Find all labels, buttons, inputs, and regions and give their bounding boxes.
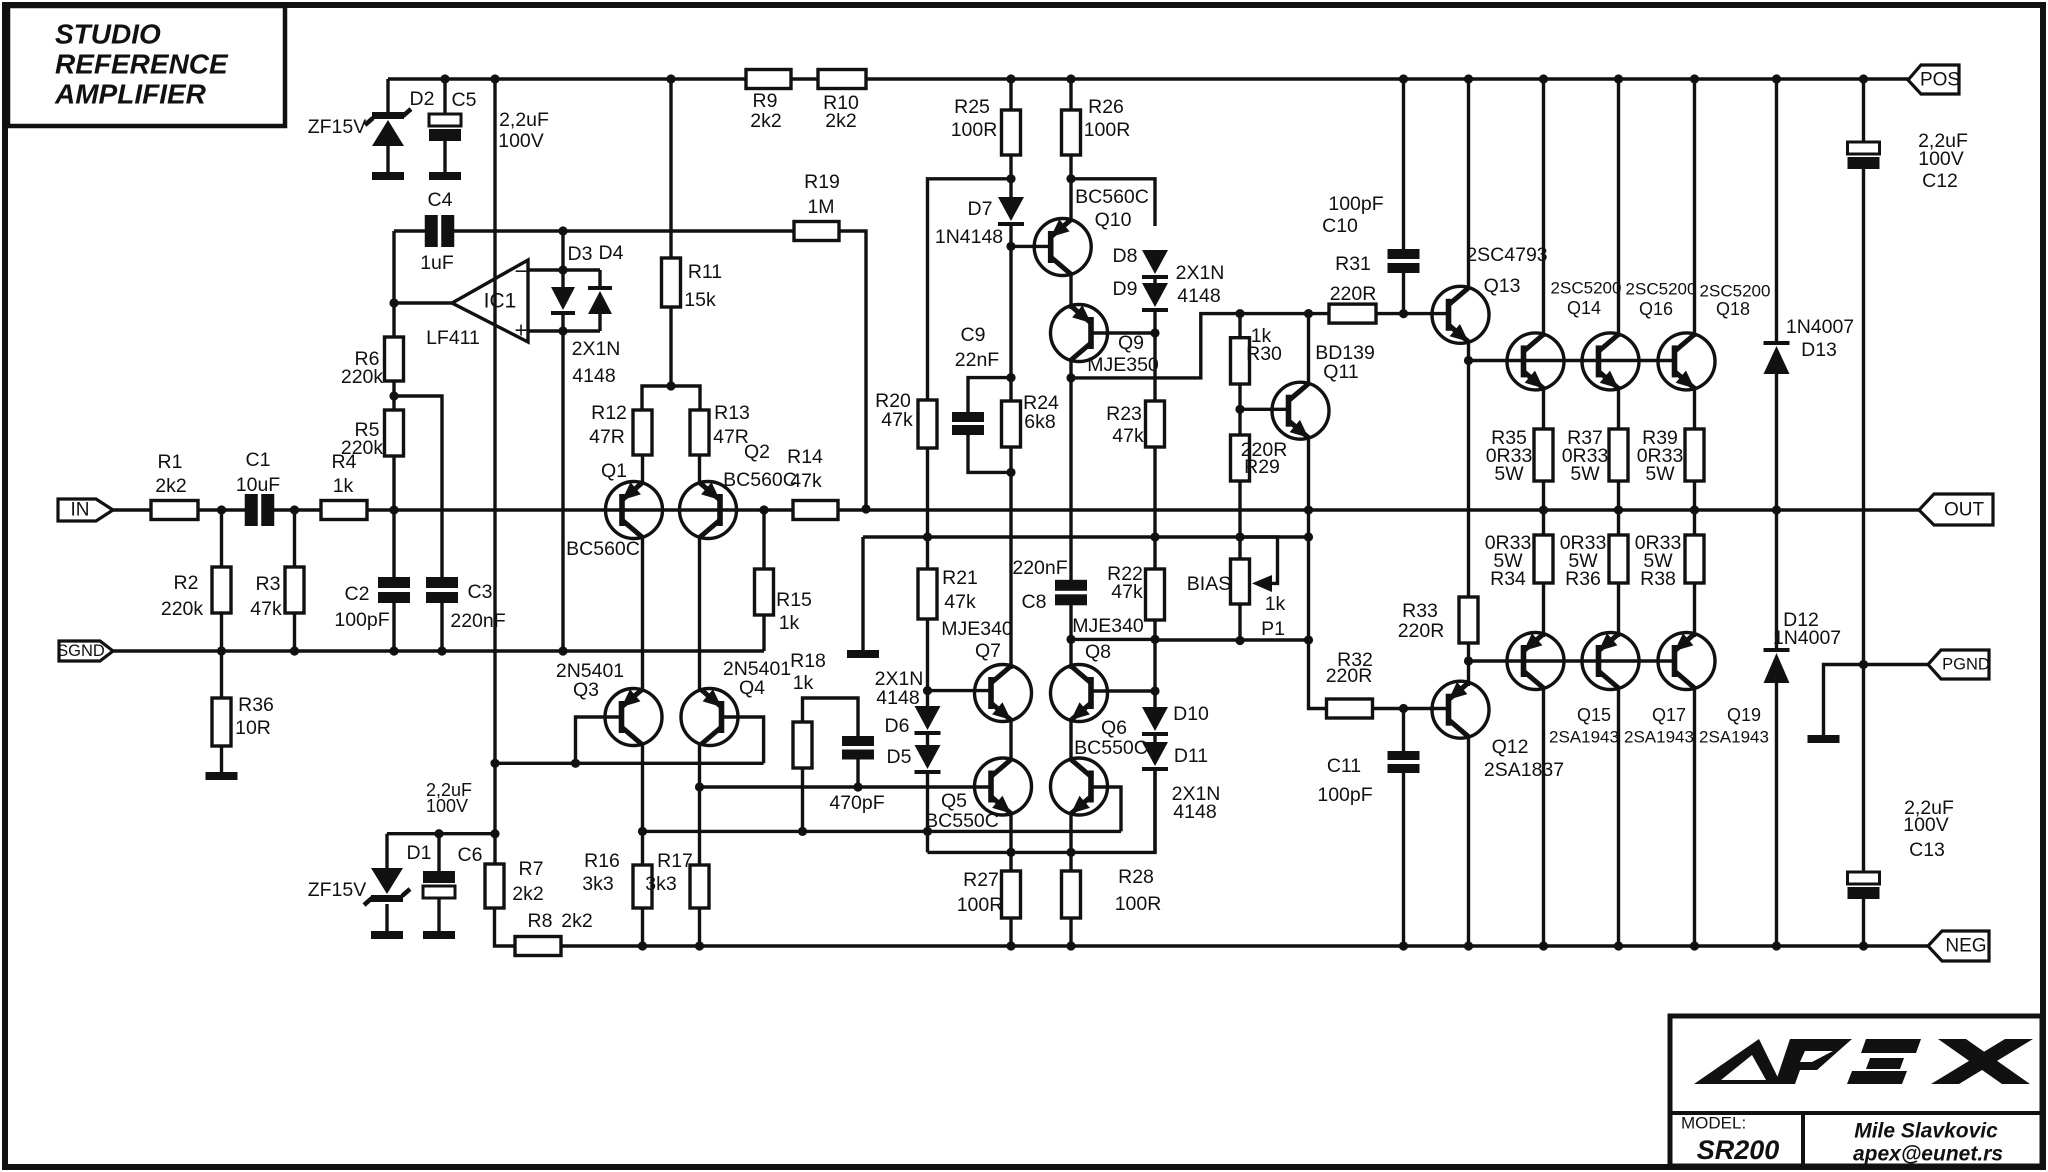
wire C9 bottom loop (968, 435, 1011, 472)
svg-text:ZF15V: ZF15V (308, 879, 367, 901)
wire R28 to NEG (1069, 918, 1072, 946)
transistor Q5 BC550C (975, 758, 1032, 815)
node SGND at C2 (389, 646, 398, 655)
svg-text:−: − (515, 259, 528, 284)
capacitor C4 1uF (425, 215, 438, 247)
node C6 branch (434, 829, 443, 838)
svg-text:470pF: 470pF (829, 792, 884, 814)
wire SGND line (113, 649, 764, 652)
capacitor C11 100pF (1402, 709, 1405, 752)
svg-text:R36: R36 (1565, 568, 1601, 590)
node R18 bottom at y831 (798, 827, 807, 836)
node on POS rail (1006, 74, 1015, 83)
svg-text:2SC5200: 2SC5200 (1626, 280, 1697, 299)
svg-text:5W: 5W (1494, 463, 1524, 485)
node on POS rail (1859, 74, 1868, 83)
capacitor C8 220nF (1055, 580, 1087, 591)
wire Q9 base wire (1091, 331, 1155, 334)
svg-text:Q6: Q6 (1101, 717, 1127, 739)
svg-text:MODEL:: MODEL: (1681, 1114, 1746, 1133)
transistor Q8 MJE340 (1051, 665, 1108, 722)
svg-text:100R: 100R (1084, 119, 1131, 141)
node on POS rail (440, 74, 449, 83)
wire D3 cathode to plus wire (561, 315, 564, 331)
wire R31 to C10 node (1376, 312, 1404, 315)
node bias line R20 (923, 532, 932, 541)
wire R22 bottom to node (1153, 620, 1156, 639)
svg-text:R2: R2 (174, 572, 199, 594)
resistor R23 47k (1146, 401, 1165, 447)
svg-text:IN: IN (71, 500, 90, 521)
node bias line R23 (1150, 532, 1159, 541)
wire C12 down to PGND node (1862, 169, 1865, 665)
node Q11 base (1235, 405, 1244, 414)
wire OUT line to R38 (1693, 510, 1696, 535)
resistor R24 6k8 (1002, 401, 1021, 447)
svg-text:2X1N: 2X1N (1176, 262, 1225, 284)
wire R2 to SGND (220, 613, 223, 651)
svg-text:220k: 220k (341, 366, 384, 388)
op-amp IC1 LF411 (452, 260, 528, 342)
svg-text:Q17: Q17 (1652, 705, 1686, 725)
svg-text:R21: R21 (942, 567, 978, 589)
resistor R34 0R33 5W (1534, 535, 1553, 583)
node Q3 collector R16 junction (638, 827, 647, 836)
node R19 branch on main line (861, 504, 870, 513)
svg-text:R17: R17 (657, 850, 693, 872)
svg-text:R26: R26 (1088, 96, 1124, 118)
svg-text:R28: R28 (1118, 866, 1154, 888)
node on POS rail (1464, 74, 1473, 83)
svg-text:Q2: Q2 (744, 441, 770, 463)
svg-text:1M: 1M (807, 196, 834, 218)
wire Q5 emitter down (1009, 814, 1012, 872)
svg-text:Q10: Q10 (1095, 209, 1132, 231)
wire IN to R1 (113, 508, 151, 511)
svg-text:SR200: SR200 (1697, 1135, 1780, 1165)
diode D13 1N4007 (1764, 346, 1790, 374)
wire R13 to Q2 emitter (698, 455, 701, 485)
wire R39 to OUT line (1693, 481, 1696, 510)
node on POS rail (1690, 74, 1699, 83)
diode D11 1N4148 (1153, 736, 1156, 743)
transistor Q10 BC560C (1034, 219, 1091, 276)
svg-text:AMPLIFIER: AMPLIFIER (54, 79, 207, 110)
ground below D1 (371, 931, 403, 939)
wire POS rail right of R10 to POS terminal (866, 77, 1908, 80)
wire R26 to Q10 emitter (1069, 155, 1072, 222)
wire R5 to main line (392, 456, 395, 509)
wire R3 to SGND (293, 613, 296, 651)
svg-text:C1: C1 (246, 449, 271, 471)
wire Q10 collector to Q9 emitter (1069, 272, 1072, 309)
svg-text:2k2: 2k2 (155, 475, 186, 497)
svg-text:REFERENCE: REFERENCE (55, 49, 229, 80)
potentiometer P1 BIAS 1k (1231, 559, 1250, 604)
wire R38 to Q19 emitter (1693, 583, 1696, 637)
resistor R4 1k (321, 501, 367, 520)
wire C4 to minus-node wire (452, 229, 794, 232)
resistor R30 1k (1238, 314, 1241, 338)
node plus input D3 branch (558, 326, 567, 335)
wire D2 lead from rail (386, 79, 389, 115)
wire C4 feedback top wire (394, 229, 427, 232)
svg-text:C13: C13 (1909, 839, 1945, 861)
diode D3 1N4148 (561, 270, 564, 287)
wire Q2 collector down (698, 535, 701, 689)
ground below C5 (429, 172, 461, 180)
node Q15 at NEG (1539, 941, 1548, 950)
svg-text:C3: C3 (468, 581, 493, 603)
svg-text:R38: R38 (1640, 568, 1676, 590)
wire D2 anode to ground (386, 146, 389, 174)
svg-text:Q5: Q5 (941, 790, 967, 812)
wire R29 down to bias pot (1238, 481, 1241, 537)
capacitor C10 100pF (1402, 79, 1405, 249)
wire Q11 emitter down (1307, 437, 1310, 510)
wire main line to output section (866, 508, 1919, 511)
svg-text:C5: C5 (452, 89, 477, 111)
wire Q16 emitter to R37 (1617, 386, 1620, 429)
wire y831 line (643, 830, 1122, 833)
resistor R15 1k (762, 510, 765, 569)
svg-text:2SA1943: 2SA1943 (1624, 728, 1694, 747)
resistor R27 100R (1002, 871, 1021, 918)
resistor R9 2k2 (746, 70, 791, 89)
svg-text:C9: C9 (961, 324, 986, 346)
svg-text:3k3: 3k3 (582, 873, 613, 895)
ground below R36 (206, 772, 238, 780)
svg-text:R30: R30 (1246, 343, 1282, 365)
wire R17 to NEG rail (698, 908, 701, 946)
wire Q18 emitter to R39 (1693, 386, 1696, 429)
ground at PGND (1808, 735, 1840, 743)
node R22 bottom D10 top (1150, 635, 1159, 644)
svg-text:R9: R9 (753, 90, 778, 112)
svg-text:220R: 220R (1398, 620, 1445, 642)
ground below C6 (423, 931, 455, 939)
wire Q3 base hook (576, 717, 622, 763)
wire D7 to Q10 base node (1009, 226, 1012, 246)
svg-text:POS: POS (1920, 70, 1960, 91)
svg-text:C11: C11 (1327, 755, 1361, 777)
node main line at R5/C2 (389, 505, 398, 514)
resistor R36 10R (220, 651, 223, 698)
transistor Q14 2SC5200 (1507, 333, 1564, 390)
svg-text:C8: C8 (1022, 591, 1047, 613)
node SGND at R3 (290, 646, 299, 655)
wire NPN bases line (1469, 359, 1675, 362)
wire D12 to NEG rail (1775, 683, 1778, 946)
resistor R2 220k (220, 510, 223, 567)
node Q11 collector branch (1304, 309, 1313, 318)
node bias line T at spreader column (1304, 532, 1313, 541)
svg-text:R11: R11 (688, 261, 722, 283)
wire Q15 collector to NEG rail (1542, 686, 1545, 946)
transistor Q12 2SA1837 (1432, 681, 1489, 738)
svg-text:5W: 5W (1570, 463, 1600, 485)
svg-text:R19: R19 (804, 171, 840, 193)
diode D10 1N4148 (1153, 639, 1156, 708)
svg-text:IC1: IC1 (484, 290, 517, 313)
svg-text:D3: D3 (568, 243, 593, 265)
wire PGND to ground (1824, 665, 1864, 738)
node R28 at NEG (1066, 941, 1075, 950)
transistor Q7 MJE340 (975, 665, 1032, 722)
svg-text:220R: 220R (1326, 665, 1373, 687)
svg-text:5W: 5W (1645, 463, 1675, 485)
resistor R16 3k3 (633, 865, 652, 908)
wire main line Q1 base to Q2 base (622, 508, 718, 511)
node C11 at NEG (1399, 941, 1408, 950)
svg-text:1N4007: 1N4007 (1773, 627, 1841, 649)
node Q13 emitter bases junction (1464, 356, 1473, 365)
svg-text:R34: R34 (1490, 568, 1526, 590)
logo box divider horizontal (1670, 1111, 2042, 1115)
svg-text:Q15: Q15 (1577, 705, 1611, 725)
resistor R38 0R33 5W (1685, 535, 1704, 583)
svg-text:47k: 47k (881, 409, 913, 431)
svg-text:MJE340: MJE340 (941, 618, 1013, 640)
wire R14 to R19 node (838, 508, 866, 511)
svg-text:Q1: Q1 (601, 460, 627, 482)
svg-text:Q7: Q7 (975, 640, 1001, 662)
capacitor C7 470pF (842, 736, 874, 746)
svg-text:4148: 4148 (572, 365, 615, 387)
capacitor C3 220nF (426, 577, 458, 588)
node Q6 emitter junction (1066, 848, 1075, 857)
svg-text:BC550C: BC550C (925, 810, 999, 832)
wire D8 to D9 (1153, 279, 1156, 283)
wire D1 C6 feed line (387, 832, 495, 835)
wire C9 top loop (968, 378, 1011, 412)
svg-text:47k: 47k (1111, 581, 1143, 603)
wire R15 to SGND end (762, 615, 765, 651)
svg-text:D6: D6 (885, 715, 910, 737)
resistor R6 220k (385, 337, 404, 381)
resistor R20 47k (918, 400, 937, 448)
zener diode D2 ZF15V (372, 120, 404, 146)
resistor R33 220R (1459, 597, 1478, 643)
wire minus input (528, 268, 600, 271)
wire main line Q2 base to R14 (718, 508, 793, 511)
svg-text:P1: P1 (1261, 618, 1285, 640)
wire feedback node down to R6 (392, 303, 395, 337)
svg-text:Mile Slavkovic: Mile Slavkovic (1854, 1120, 1998, 1143)
wire C1 to R4 (274, 508, 321, 511)
wire Q6 emitter down (1069, 812, 1072, 872)
wire Q12 collector to NEG (1467, 735, 1470, 946)
resistor R32 220R (1327, 699, 1373, 718)
wire plus input (528, 329, 600, 332)
svg-text:R7: R7 (519, 858, 544, 880)
transistor Q16 2SC5200 (1582, 333, 1639, 390)
svg-text:R23: R23 (1106, 403, 1142, 425)
APEX logo X (1938, 1039, 2030, 1084)
wire NEG rail (561, 944, 1908, 947)
wire D9 to Q9 base node (1153, 312, 1156, 333)
node main line Q11 emitter (1304, 505, 1313, 514)
svg-text:R33: R33 (1402, 600, 1438, 622)
wire D11 to emitter line (1153, 771, 1156, 852)
svg-text:2SA1943: 2SA1943 (1699, 728, 1769, 747)
node C10 bottom (1399, 309, 1408, 318)
resistor R7 2k2 (485, 864, 504, 908)
transistor Q13 2SC4793 (1432, 286, 1489, 343)
svg-text:100pF: 100pF (1317, 784, 1372, 806)
wire R6-R5 node to C3 branch (394, 396, 442, 577)
resistor R29 220R (1238, 409, 1241, 435)
wire POS rail to Q14 collector (1542, 79, 1545, 337)
wire Q14 emitter to R35 (1542, 386, 1545, 429)
wire PNP bases line (1469, 659, 1675, 662)
svg-text:2SA1943: 2SA1943 (1549, 728, 1619, 747)
node VAS output (1066, 373, 1075, 382)
node SGND at R2 (217, 646, 226, 655)
transistor Q2 BC560C (680, 482, 737, 539)
svg-text:2SC5200: 2SC5200 (1551, 279, 1622, 298)
node pot bottom (1235, 636, 1244, 645)
APEX logo A (1694, 1039, 1781, 1084)
svg-text:D9: D9 (1113, 278, 1138, 300)
svg-text:100pF: 100pF (1328, 193, 1383, 215)
node on POS rail (1539, 74, 1548, 83)
wire R18 top hook to C7 (803, 698, 859, 736)
svg-text:Q8: Q8 (1085, 641, 1111, 663)
resistor R31 220R (1329, 304, 1376, 323)
svg-text:1k: 1k (333, 475, 354, 497)
wire D9 node to R23 (1153, 333, 1156, 401)
wire main line R5node to Q1 base (394, 508, 622, 511)
wire D1 lead (385, 834, 388, 874)
wire R27 to NEG (1009, 918, 1012, 946)
svg-text:C2: C2 (345, 583, 370, 605)
node x=495 at y=763 (490, 759, 499, 768)
wire VAS node to bias spreader (1071, 314, 1240, 378)
svg-text:100V: 100V (498, 130, 544, 152)
node R30 top (1235, 309, 1244, 318)
wire Q13 collector to POS rail (1467, 79, 1470, 290)
wire bias line y537 (863, 535, 1309, 538)
wire R11 to splitter (669, 307, 672, 386)
node D5 at y831 line (923, 827, 932, 836)
svg-text:1k: 1k (779, 612, 800, 634)
resistor R5 220k (385, 410, 404, 456)
wire x=495 to R7 (493, 834, 496, 864)
svg-text:100V: 100V (1918, 148, 1964, 170)
node C8 bottom / Q8 collector (1066, 635, 1075, 644)
capacitor C9 22nF (952, 412, 984, 422)
svg-text:47k: 47k (944, 591, 976, 613)
node R2 branch (217, 505, 226, 514)
svg-text:100R: 100R (1115, 893, 1162, 915)
svg-text:R14: R14 (787, 446, 823, 468)
svg-text:R13: R13 (714, 402, 750, 424)
wire rail to R25 (1009, 79, 1012, 110)
zener diode D1 ZF15V (371, 868, 403, 894)
wire rail to R26 (1069, 79, 1072, 110)
svg-text:100R: 100R (957, 894, 1004, 916)
wire R7 to NEG corner (495, 908, 516, 946)
resistor R25 100R (1002, 110, 1021, 155)
svg-text:Q12: Q12 (1492, 736, 1529, 758)
svg-text:C12: C12 (1922, 170, 1958, 192)
node on POS rail (1399, 74, 1408, 83)
wire y852 emitter line (928, 771, 1156, 852)
svg-text:BC560C: BC560C (723, 469, 797, 491)
node R39 at OUT line (1690, 505, 1699, 514)
svg-text:Q14: Q14 (1567, 298, 1601, 318)
svg-text:R29: R29 (1244, 456, 1280, 478)
wire bracket to R20 (928, 179, 1012, 400)
node on POS rail (666, 74, 675, 83)
svg-text:2,2uF: 2,2uF (499, 109, 549, 131)
svg-text:BIAS: BIAS (1187, 573, 1231, 595)
node on POS rail (490, 74, 499, 83)
diode D4 1N4148 (598, 270, 601, 288)
node on POS rail (1772, 74, 1781, 83)
svg-text:6k8: 6k8 (1024, 411, 1055, 433)
wire Q7 emitter to Q5 collector (1009, 720, 1012, 758)
svg-text:R18: R18 (790, 650, 826, 672)
svg-text:2k2: 2k2 (561, 910, 592, 932)
node C7 at y787 line (853, 782, 862, 791)
wire D4 anode to plus wire (598, 314, 601, 331)
wire y831 step down (926, 831, 929, 852)
node PGND (1859, 660, 1868, 669)
wire R30 to Q11 base node (1238, 384, 1241, 409)
node C9 bottom branch (1006, 468, 1015, 477)
wire Q11 collector up (1307, 314, 1310, 384)
svg-text:3k3: 3k3 (645, 873, 676, 895)
wire R25 to D7 (1009, 155, 1012, 198)
svg-text:apex@eunet.rs: apex@eunet.rs (1853, 1143, 2003, 1166)
svg-text:C4: C4 (428, 189, 453, 211)
svg-text:15k: 15k (684, 289, 716, 311)
node R37 at OUT line (1614, 505, 1623, 514)
wire Q11 emitter column down to R32 (1309, 510, 1327, 709)
node Q9 base D9 (1150, 328, 1159, 337)
node splitter (666, 381, 675, 390)
svg-text:2k2: 2k2 (825, 110, 856, 132)
svg-text:2SC5200: 2SC5200 (1700, 282, 1771, 301)
node Q5 emitter junction (1006, 848, 1015, 857)
svg-text:MJE350: MJE350 (1087, 354, 1159, 376)
wire R18 bottom lead (801, 768, 804, 831)
svg-text:Q18: Q18 (1716, 299, 1750, 319)
logo box (1670, 1016, 2042, 1166)
wire rail to R11 (669, 79, 672, 258)
wire OUT line to R36 (1617, 510, 1620, 535)
wire OUT line to R34 (1542, 510, 1545, 535)
node x=495 at y=833.7 (490, 829, 499, 838)
svg-text:D11: D11 (1174, 745, 1208, 767)
wire C8 to lower node (1069, 605, 1072, 639)
svg-text:C10: C10 (1322, 215, 1358, 237)
wire NEG rail to terminal (1908, 944, 1928, 947)
svg-text:R4: R4 (332, 451, 357, 473)
svg-text:BC560C: BC560C (1075, 186, 1149, 208)
wire Q8 collector up (1069, 639, 1072, 669)
wire R23 down to bias line (1153, 447, 1156, 537)
svg-text:Q3: Q3 (573, 679, 599, 701)
transistor Q18 2SC5200 (1658, 333, 1715, 390)
svg-text:220nF: 220nF (1012, 557, 1067, 579)
svg-text:OUT: OUT (1944, 500, 1985, 521)
transistor Q1 BC560C (606, 482, 663, 539)
wire D7 node down to C9 top (1009, 246, 1012, 401)
transistor Q19 2SA1943 (1658, 633, 1715, 690)
